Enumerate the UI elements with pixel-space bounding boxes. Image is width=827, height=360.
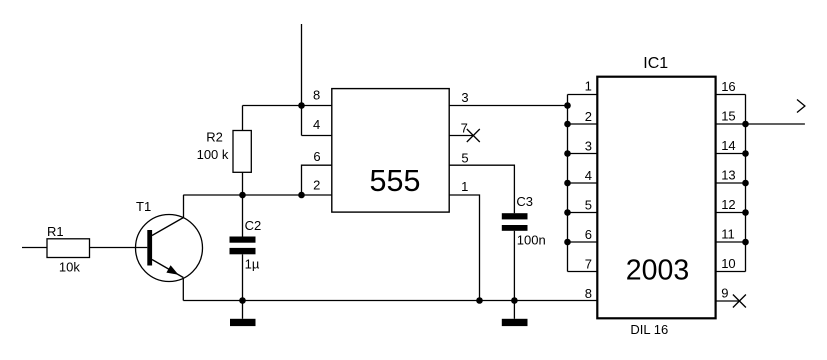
wire C2 bottom to ground: [242, 254, 244, 318]
junction node pin2/pin6/collector: [298, 192, 305, 199]
svg-text:C3: C3: [516, 194, 533, 209]
svg-text:3: 3: [585, 139, 592, 154]
wire C3 bottom to ground: [513, 231, 515, 319]
wire IC1 pin 15 stub: [716, 123, 746, 125]
svg-text:8: 8: [585, 286, 592, 301]
junction node R2/C2/rail: [239, 192, 246, 199]
junction node C2/ground rail: [239, 297, 246, 304]
wire IC1 pin 6 stub: [568, 241, 598, 243]
wire IC1 pin 1 stub: [568, 94, 598, 96]
svg-text:6: 6: [313, 149, 320, 164]
svg-text:9: 9: [721, 286, 728, 301]
svg-text:5: 5: [461, 151, 468, 166]
junction node bus pin12: [742, 209, 749, 216]
junction node bus pin13: [742, 180, 749, 187]
svg-text:T1: T1: [136, 199, 151, 214]
wire top vertical to pin8/pin4 junction: [301, 24, 303, 136]
ground under C2: [230, 319, 256, 326]
wire IC1 left bus: [567, 95, 569, 272]
svg-text:6: 6: [585, 227, 592, 242]
junction node pin1/ground rail: [476, 297, 483, 304]
svg-text:100 k: 100 k: [197, 147, 229, 162]
svg-text:2: 2: [585, 109, 592, 124]
svg-text:16: 16: [721, 79, 735, 94]
svg-text:8: 8: [313, 88, 320, 103]
junction node bus pin2: [564, 121, 571, 128]
svg-text:11: 11: [721, 227, 735, 242]
capacitor C2: [230, 237, 256, 255]
svg-text:14: 14: [721, 138, 735, 153]
svg-text:1µ: 1µ: [245, 256, 260, 271]
wire R1 to base: [90, 247, 148, 249]
wire R2 vertical: [242, 106, 244, 131]
wire pin 8 stub: [302, 105, 332, 107]
svg-text:10: 10: [721, 256, 735, 271]
wire pin 4 stub: [302, 135, 332, 137]
svg-text:C2: C2: [245, 218, 262, 233]
svg-text:13: 13: [721, 168, 735, 183]
no-connect X on IC1 pin 9: [733, 295, 746, 308]
IC IC1 2003 (ULN2003, DIL 16): [597, 77, 715, 319]
wire IC1 pin 2 stub: [568, 123, 598, 125]
svg-text:5: 5: [585, 198, 592, 213]
wire pin 6 stub and link to pin 2: [302, 165, 332, 195]
wire IC1 pin 9 stub: [716, 300, 740, 302]
junction node bus pin4: [564, 180, 571, 187]
wire IC1 pin 10 stub: [716, 271, 746, 273]
wire output from IC1 pin 15: [746, 123, 805, 125]
wire IC1 pin 4 stub: [568, 182, 598, 184]
svg-text:1: 1: [461, 179, 468, 194]
wire collector rail to 555 pin 2: [183, 194, 331, 196]
junction node bus pin6: [564, 239, 571, 246]
timer IC 555: [332, 89, 449, 213]
wire IC1 pin 11 stub: [716, 241, 746, 243]
wire input left: [22, 247, 47, 249]
svg-text:4: 4: [585, 168, 592, 183]
svg-text:555: 555: [370, 164, 421, 198]
junction node bus/555 pin3: [564, 102, 571, 109]
svg-text:15: 15: [721, 109, 735, 124]
wire IC1 right bus: [745, 95, 747, 272]
svg-text:DIL 16: DIL 16: [630, 322, 668, 337]
wire IC1 pin 16 stub: [716, 94, 746, 96]
svg-text:10k: 10k: [59, 260, 80, 275]
output chevron arrow: [797, 100, 805, 113]
svg-text:IC1: IC1: [643, 55, 668, 72]
resistor R1: [47, 239, 90, 258]
svg-text:3: 3: [461, 90, 468, 105]
wire IC1 pin 5 stub: [568, 212, 598, 214]
resistor R2: [233, 131, 251, 173]
svg-text:1: 1: [585, 79, 592, 94]
wire IC1 pin 14 stub: [716, 153, 746, 155]
wire C2 top: [242, 195, 244, 237]
svg-text:4: 4: [313, 117, 320, 132]
wire 555 pin 7 stub: [449, 135, 473, 137]
junction node bus pin11: [742, 239, 749, 246]
junction node bus pin14: [742, 150, 749, 157]
svg-text:R1: R1: [47, 224, 64, 239]
wire ground rail bottom: [183, 300, 597, 302]
wire IC1 pin 12 stub: [716, 212, 746, 214]
svg-text:12: 12: [721, 197, 735, 212]
junction node C3/ground rail: [511, 297, 518, 304]
wire 555 pin 3 to IC1 bus: [449, 105, 567, 107]
wire 555 pin 1 to ground rail: [449, 195, 479, 301]
ground under C3: [502, 319, 528, 326]
no-connect X on 555 pin 7: [467, 129, 480, 142]
svg-text:7: 7: [585, 257, 592, 272]
wire IC1 pin 7 stub: [568, 271, 598, 273]
wire R2 top to junction: [243, 105, 302, 107]
svg-text:2003: 2003: [626, 254, 689, 286]
svg-text:100n: 100n: [517, 232, 546, 247]
svg-text:R2: R2: [206, 130, 223, 145]
junction node bus pin3: [564, 150, 571, 157]
wire IC1 pin 13 stub: [716, 182, 746, 184]
junction node bus pin15: [742, 121, 749, 128]
wire R2 bottom to rail: [242, 172, 244, 195]
transistor T1: [136, 195, 203, 301]
svg-text:7: 7: [461, 120, 468, 135]
junction node R2/pin8/top: [298, 102, 305, 109]
wire IC1 pin 3 stub: [568, 153, 598, 155]
capacitor C3: [502, 213, 528, 231]
wire 555 pin 5 to C3: [449, 165, 514, 213]
svg-text:2: 2: [313, 178, 320, 193]
junction node bus pin5: [564, 209, 571, 216]
